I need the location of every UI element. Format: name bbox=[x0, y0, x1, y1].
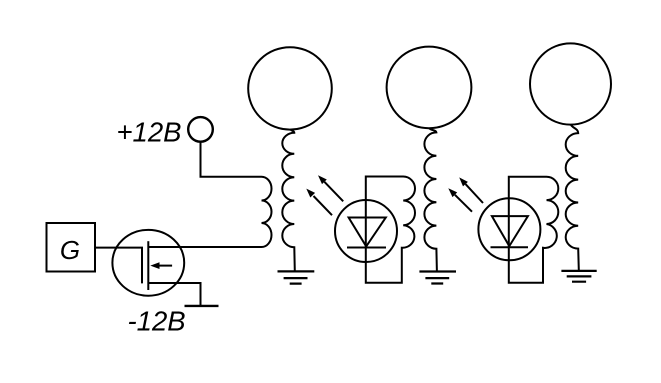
wire VT1 source to -12V bbox=[148, 283, 200, 306]
LED VD2 light arrow 2 bbox=[466, 184, 484, 203]
svg-text:-12В: -12В bbox=[128, 305, 186, 336]
secondary coil L2 bbox=[282, 129, 295, 271]
ball electrode E2 bbox=[387, 47, 472, 129]
ground GND1 bbox=[278, 271, 315, 283]
ball electrode E3 bbox=[530, 43, 611, 124]
loop: LED VD2 with primary winding L5 bbox=[509, 177, 559, 283]
LED VD2 cathode bar bbox=[491, 246, 529, 248]
LED VD1 light arrow 1 bbox=[314, 196, 333, 215]
ground GND3 bbox=[561, 271, 596, 282]
svg-text:G: G bbox=[60, 235, 80, 265]
ball electrode E1 bbox=[248, 47, 332, 129]
loop: LED VD1 with primary winding L3 bbox=[366, 177, 415, 283]
LED VD1 circle bbox=[335, 200, 397, 262]
wire gate (G box to VT1 gate) bbox=[95, 248, 142, 284]
transistor VT1 channel bar bbox=[147, 241, 149, 290]
transistor VT1 MOSFET body circle bbox=[112, 230, 184, 296]
secondary coil L4 bbox=[424, 128, 437, 272]
ground GND2 bbox=[419, 272, 456, 284]
LED VD1 cathode bar bbox=[347, 247, 386, 249]
power terminal +12V circle bbox=[188, 117, 213, 142]
LED VD2 light arrow 1 bbox=[455, 195, 472, 212]
svg-text:+12В: +12В bbox=[117, 116, 182, 147]
wire +12V to primary L1 and primary winding L1 down to VT1 drain bbox=[148, 142, 271, 247]
LED VD1 triangle bbox=[349, 218, 386, 247]
LED VD1 light arrow 2 bbox=[324, 182, 343, 202]
secondary coil L6 bbox=[566, 124, 579, 270]
generator box G bbox=[47, 223, 96, 272]
power terminal -12V bar bbox=[185, 305, 219, 307]
LED VD2 circle bbox=[478, 198, 540, 260]
LED VD2 triangle bbox=[492, 216, 528, 246]
transistor VT1 substrate arrow bbox=[159, 265, 173, 267]
